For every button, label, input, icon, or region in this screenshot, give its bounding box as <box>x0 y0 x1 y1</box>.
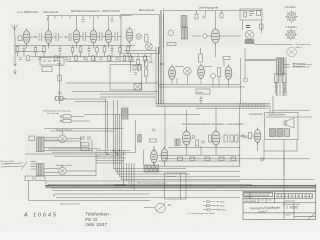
resistor R22 on bus <box>190 157 195 161</box>
component row top mid <box>195 14 198 19</box>
handwritten entries <box>250 206 299 214</box>
IF transformer T2 <box>97 32 106 41</box>
revision cells <box>275 194 313 198</box>
rotary switch SW <box>156 203 166 213</box>
wire: screen bus <box>66 61 135 63</box>
capacitor C5 dark <box>246 26 250 28</box>
antenna A1 <box>12 25 18 37</box>
resistor R20 <box>150 139 157 142</box>
tube V8 <box>198 64 205 81</box>
wire: speaker box feed <box>269 106 271 112</box>
blatt box <box>294 215 316 217</box>
ground terminal arrows <box>14 60 17 74</box>
oscillator coil box <box>199 54 203 62</box>
output transformer T5 <box>144 165 159 172</box>
wire: mains input leads <box>5 164 19 167</box>
loudspeaker LS1 <box>245 31 253 39</box>
fuse box F1 <box>29 136 35 141</box>
wire: lower distribution line <box>84 113 200 115</box>
tuned circuit L1 <box>30 33 46 41</box>
wire: crossing matrix horizontals <box>96 151 136 157</box>
components before demodulator <box>241 135 245 137</box>
wire: HT rails stepping right <box>49 148 102 150</box>
wire: stems <box>215 11 217 57</box>
trigger circle <box>192 136 195 139</box>
IF transformer T4 hatched <box>181 16 187 28</box>
darker main ink accents <box>45 186 316 187</box>
switch unit box <box>165 173 187 199</box>
resistor column right of box <box>145 60 148 67</box>
loudspeaker box <box>265 113 299 140</box>
resistor R5 <box>63 119 71 122</box>
wire: mid-row anode links <box>175 66 212 68</box>
tube V15 <box>161 147 168 164</box>
resistor R9 <box>167 43 176 46</box>
wire: AGC bus <box>30 56 150 58</box>
deflection coil box 2 <box>282 74 286 83</box>
tube V5 IF2 <box>105 28 112 45</box>
wire: main distribution bus <box>156 103 270 105</box>
top right EHT box <box>240 9 262 20</box>
title block <box>243 184 316 220</box>
wire: extra power matrix lines <box>96 158 126 163</box>
deflection coil box 1 <box>275 74 279 83</box>
wire: vertical feed from line bus <box>163 9 165 48</box>
wire: mid horizontal runs to cable bundle <box>66 82 158 84</box>
resistor R16 on bus <box>219 157 224 161</box>
wire: audio tube stems <box>165 142 258 166</box>
interstage coil L2 <box>52 33 63 41</box>
wire: nested power runs <box>46 180 240 182</box>
wire: down from boxes <box>277 83 285 97</box>
diode D2 <box>211 74 216 79</box>
flyback transformer hatched <box>277 58 285 75</box>
tube V7 <box>169 65 176 82</box>
wire: power wiring <box>25 140 96 173</box>
resistor R6 <box>218 68 221 77</box>
wire <box>192 35 241 37</box>
wire: vertical x15 <box>14 36 16 60</box>
switch contacts inside S1 <box>43 60 61 62</box>
title block frame <box>243 192 316 220</box>
wire: output tube stem <box>153 146 155 165</box>
switch S2 <box>21 162 27 171</box>
wire: jack terminals <box>60 115 62 117</box>
valve socket diagram S2 <box>285 28 297 40</box>
capacitor C14 at bundle <box>160 63 163 65</box>
smoothing capacitors C9 <box>81 137 85 139</box>
coupling parts under detector box <box>129 56 132 61</box>
coil L5 <box>184 67 192 75</box>
wire: left column down <box>59 56 61 104</box>
wire: top HF bus <box>46 15 132 17</box>
stamp cells top-left <box>244 192 273 196</box>
resistor R2 <box>145 35 148 43</box>
component strip under HF row: resistors and capacitors <box>16 45 133 61</box>
title block texts <box>245 197 302 217</box>
tube V4 IF1 <box>90 28 97 45</box>
wire: rectifier anode tops <box>62 131 64 167</box>
capacitor stack C8 <box>31 162 37 170</box>
wire: power section wiring extra <box>44 137 100 176</box>
arrow to deflection <box>293 63 306 68</box>
wire verticals to audio row <box>165 107 240 166</box>
speaker cone <box>286 118 294 128</box>
wire: tube cathode stems to strip <box>27 44 131 49</box>
wire: feed to output stage <box>136 120 140 152</box>
wire: stems <box>172 78 229 87</box>
tube V3 mixer <box>73 28 80 45</box>
junction dots <box>105 150 121 155</box>
wire: top line-frequency bus <box>164 10 263 12</box>
rectifier tube G2 <box>59 167 67 175</box>
lamp <box>244 78 248 82</box>
wire: verticals <box>29 181 46 201</box>
switch contact block <box>56 97 59 101</box>
capacitor C2 <box>65 36 68 38</box>
wire: V3 to bus <box>77 16 109 28</box>
resistor R13 <box>235 135 238 142</box>
coil L6 <box>168 30 174 36</box>
tube V14 demodulator <box>254 128 261 145</box>
capacitor C7 <box>244 136 248 138</box>
CRT cable <box>277 57 286 96</box>
choke resistors R17 R18 <box>81 143 89 146</box>
tube V13 <box>212 129 220 147</box>
control unit box <box>110 65 142 91</box>
resistor R14 on bus <box>178 157 183 161</box>
resistor R3 on left column <box>58 75 61 81</box>
power transformer T6 <box>37 137 45 152</box>
wire: right frame edge <box>315 184 317 192</box>
wire: cathode return line <box>14 44 135 46</box>
jack circle <box>260 158 263 161</box>
coil L3 <box>69 33 71 41</box>
tube V10 output of line gen <box>212 27 220 45</box>
wire: corner down to lower bundle <box>106 99 108 150</box>
cable bundle vertical (middle) <box>156 14 164 104</box>
resistor R15 on bus <box>205 157 210 161</box>
detector box enclosure <box>121 15 160 54</box>
CRT socket circle <box>287 47 297 57</box>
capacitor C4 <box>58 92 62 94</box>
resistor R10 <box>196 140 199 146</box>
wire: bus under V1/V2 <box>15 51 46 53</box>
nested corner bundle mid <box>127 163 135 191</box>
choke block hatched <box>122 108 129 119</box>
tube V6 detector stage <box>126 27 133 44</box>
capacitor C10 <box>152 129 156 131</box>
wire <box>254 44 293 46</box>
wire: bundle turns to the right <box>114 169 315 180</box>
left info cells <box>243 192 316 203</box>
wire from speaker box <box>264 140 297 207</box>
wire: bottom chassis double line <box>45 185 316 187</box>
resistor R21 <box>209 135 212 142</box>
valve socket diagram S1 <box>285 10 298 23</box>
wire: mid-row component drops <box>187 58 240 104</box>
resistor R23 on bus <box>231 157 236 161</box>
oscillator box <box>42 67 52 72</box>
resistor R4 <box>63 115 71 118</box>
parts inside control box <box>133 66 136 71</box>
wire: bus stubs and feed caps <box>48 16 121 21</box>
small parts near line bus end <box>244 12 247 17</box>
IF transformer T3 <box>112 32 122 41</box>
label box <box>196 89 210 94</box>
trigger diode <box>203 34 207 38</box>
decoupling capacitor C11 <box>81 20 84 22</box>
wire: audio buses <box>158 154 240 156</box>
band switch box S1 <box>40 58 64 66</box>
resistor R12 <box>230 135 233 142</box>
resistor R11 <box>224 135 227 142</box>
coil L7 hatched <box>175 139 180 146</box>
IF transformer T1 <box>80 32 90 41</box>
grid resistor R1 <box>18 36 22 41</box>
terminal ticks on bus <box>240 103 264 108</box>
diode D1 <box>145 43 152 50</box>
coupling capacitor C1 <box>34 36 37 38</box>
wire: V2 anode to HF bus <box>48 16 50 29</box>
wire: corner right <box>272 96 274 114</box>
corner fold <box>308 213 316 220</box>
tube V2 <box>45 29 52 46</box>
detector coil L4 <box>136 34 142 40</box>
legend symbols <box>203 201 219 203</box>
wire <box>243 20 262 33</box>
tube V1 HF-Vorstufe <box>23 29 30 46</box>
power transformer T7 <box>37 164 45 177</box>
field coil blocks <box>270 129 276 137</box>
bottom-left terminal boxes <box>25 176 33 181</box>
scan halation tints <box>14 28 315 189</box>
main footer text <box>85 211 109 228</box>
capacitor C3 <box>58 64 62 66</box>
signature row <box>243 203 316 220</box>
tube V9 <box>225 65 232 82</box>
crossing bundle verticals <box>114 100 124 185</box>
wire: middle row cathode lines <box>158 83 240 85</box>
X-box inside <box>134 84 142 91</box>
tube V12 <box>183 129 191 147</box>
tube V16 output <box>151 148 158 165</box>
right section: vertical feeds <box>244 48 246 78</box>
wire: audio anode line <box>168 147 240 149</box>
wire: right text shelf <box>266 110 312 117</box>
resistor R8 <box>260 24 264 29</box>
rectifier tube G1 <box>59 135 67 143</box>
capacitor C6 <box>201 141 205 143</box>
resistor R19 <box>138 135 141 143</box>
resistor R7 <box>223 57 230 60</box>
dense tiny text in title block: simulated lines <box>245 194 313 202</box>
capacitor C13 <box>199 99 202 101</box>
decoupling capacitor C12 <box>110 20 113 22</box>
